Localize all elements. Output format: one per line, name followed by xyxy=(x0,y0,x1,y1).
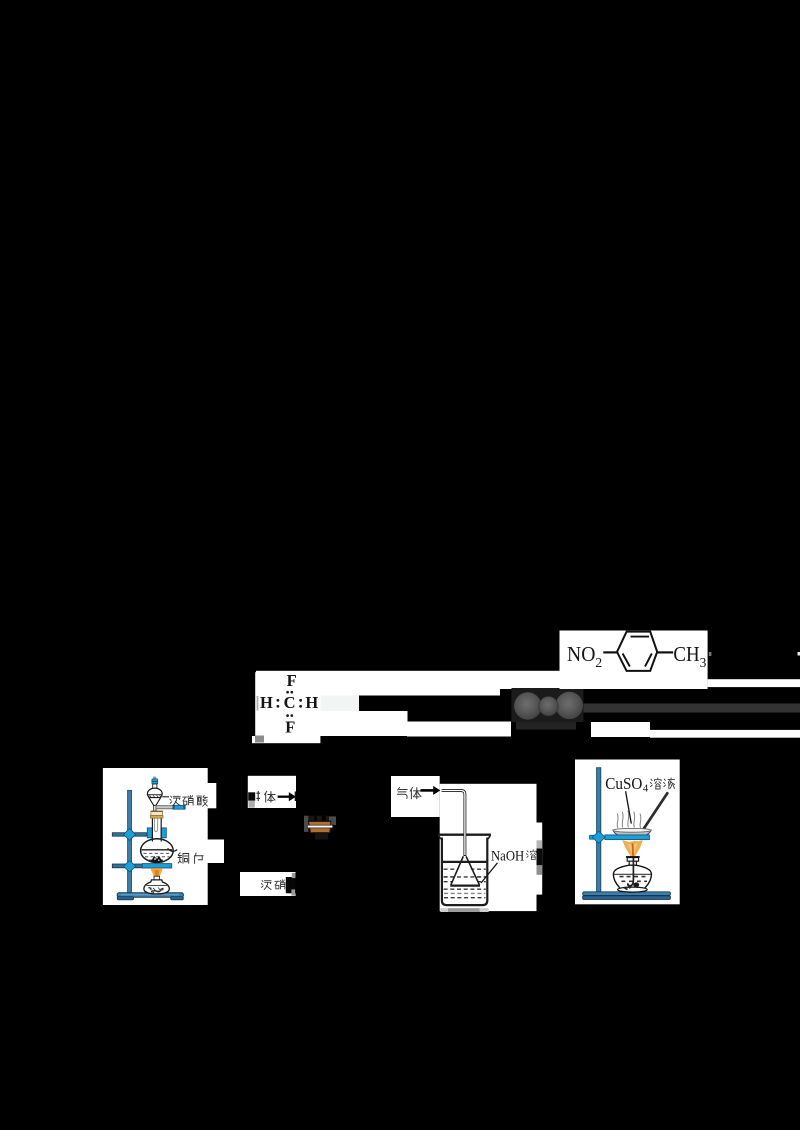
cut-off character black blob xyxy=(286,877,296,893)
rubber stopper cream part xyxy=(151,812,163,816)
lamp foot ring xyxy=(618,887,648,892)
svg-text:F: F xyxy=(285,717,295,736)
label qi (gas) xyxy=(397,787,407,798)
O sphere left xyxy=(514,692,541,719)
gray patch below blob xyxy=(537,865,543,875)
rubber stopper top line xyxy=(151,811,163,812)
apparatus2 bottom white box xyxy=(240,872,296,896)
funnel stopcock blue knob xyxy=(152,779,158,784)
stem tube inside neck xyxy=(154,819,157,832)
flame outer xyxy=(150,868,163,876)
lamp body xyxy=(613,865,651,890)
stand base left foot xyxy=(117,897,133,900)
gray cursor artifact left edge of Lewis box xyxy=(257,696,259,710)
lamp bottom shadow marks xyxy=(624,885,630,890)
apparatus1 label extension right (nitric acid) xyxy=(206,783,216,808)
wick xyxy=(628,858,634,887)
lamp hatch dark marks xyxy=(149,888,164,893)
funnel neck xyxy=(153,784,157,789)
benzene inner double bond top xyxy=(631,636,650,638)
lamp collar xyxy=(627,858,638,862)
white bottom band 4 xyxy=(650,730,800,738)
apparatus3 gas-label white box xyxy=(391,776,440,817)
ring bar xyxy=(605,835,650,840)
O sphere right xyxy=(556,692,583,719)
svg-text:CH: CH xyxy=(673,642,699,666)
C sphere center xyxy=(539,697,558,716)
svg-text:C: C xyxy=(284,693,296,712)
clamp boss upper xyxy=(124,828,136,840)
bond colon left xyxy=(277,699,280,702)
svg-text:3: 3 xyxy=(700,655,707,670)
funnel cone xyxy=(149,798,161,806)
steam squiggle 4 xyxy=(633,812,636,828)
label pian (piece) xyxy=(195,853,204,864)
gray patch bottom right xyxy=(291,889,295,895)
svg-text:4: 4 xyxy=(643,782,649,794)
bond ring to CH3 xyxy=(657,651,673,653)
lone pair dots above C xyxy=(286,691,289,694)
NaOH leader line xyxy=(481,863,498,883)
Lewis box bottom strip xyxy=(252,736,320,743)
label ti (body) xyxy=(410,787,421,798)
Lewis structure H:C:H with F above/below xyxy=(260,671,318,736)
steam squiggle 3 xyxy=(627,811,630,828)
flame inner xyxy=(154,870,159,876)
funnel base xyxy=(450,884,480,886)
gray patch left xyxy=(304,816,308,832)
dark gray band to right edge xyxy=(583,704,800,713)
crossbar upper xyxy=(112,833,147,837)
lamp collar flare xyxy=(626,856,640,858)
gray patch above blob xyxy=(537,840,543,848)
stand rod xyxy=(597,768,601,895)
clamp jaw left xyxy=(147,828,156,838)
apparatus3 right notch xyxy=(537,823,543,895)
label ye (liquid) xyxy=(664,778,675,789)
label xiao (nitric) xyxy=(275,880,285,889)
clamp boss lower xyxy=(123,861,135,872)
arrow head xyxy=(433,786,440,795)
liquid surface line xyxy=(142,849,172,851)
leader line copper xyxy=(168,848,178,851)
label nong (concentrated) xyxy=(170,796,180,806)
apparatus4 white box xyxy=(575,760,680,905)
stand rod xyxy=(128,790,132,894)
arrow head xyxy=(289,792,296,801)
gray patch right xyxy=(329,816,336,825)
flask body xyxy=(141,839,174,863)
lone pair dots below C xyxy=(286,714,289,717)
white bottom band 1 xyxy=(320,711,408,736)
ring clamp boss xyxy=(592,831,605,843)
beaker rim right flare xyxy=(487,835,490,839)
funnel bulb xyxy=(147,788,162,799)
white bottom band 3 xyxy=(591,722,650,737)
white band A (behind Lewis / between figures) xyxy=(256,671,583,689)
gray square artifact bottom-left of Lewis box xyxy=(255,736,264,743)
label tong (copper) xyxy=(178,853,189,864)
crossbar lower xyxy=(112,864,147,868)
svg-text:F: F xyxy=(287,671,297,690)
funnel stem xyxy=(154,805,156,812)
lamp inner marks xyxy=(150,888,164,892)
bond NO2 to ring xyxy=(603,651,617,653)
apparatus1 white box xyxy=(103,768,208,905)
benzene (p-nitrotoluene) white box merged with band below xyxy=(560,631,708,690)
bulb equator line xyxy=(148,794,162,796)
label xiao (nitric) xyxy=(183,795,193,805)
lamp liquid line xyxy=(614,873,652,875)
gas delivery tube xyxy=(442,791,465,857)
apparatus2 cork icon cluster xyxy=(304,816,336,840)
bulb tick marks xyxy=(150,795,161,797)
lamp neck tube xyxy=(629,861,636,868)
leader line nitric acid xyxy=(162,796,169,798)
liquid dashed rows xyxy=(444,869,486,898)
wick bottom blob xyxy=(633,882,639,887)
label nong (concentrated) xyxy=(261,880,271,889)
small gray artifact right of benzene box xyxy=(709,652,712,656)
side arm gray tube xyxy=(156,806,173,809)
stand base front face xyxy=(583,896,671,900)
arrow shaft xyxy=(278,796,290,798)
funnel right side xyxy=(466,856,479,885)
cut glyph sliver at box edge xyxy=(295,792,296,802)
tube right end cap xyxy=(332,825,334,829)
stand base top bar xyxy=(583,892,671,896)
label suan (acid) xyxy=(197,795,208,806)
flame core xyxy=(632,844,633,857)
bond colon right xyxy=(299,699,302,702)
funnel left side xyxy=(451,856,463,885)
clamp jaw right xyxy=(158,828,166,838)
beaker walls xyxy=(442,838,487,906)
flame inner light xyxy=(628,843,638,856)
label rong (solution) partial xyxy=(526,850,536,860)
gray bar under beaker xyxy=(440,908,448,912)
cork body xyxy=(308,821,331,832)
svg-text:H: H xyxy=(260,693,273,712)
gray patch top right xyxy=(292,873,296,878)
inverted funnel interior mask xyxy=(451,857,478,885)
glass tube through cork xyxy=(307,825,333,828)
flame outer xyxy=(622,840,643,856)
partial character strokes xyxy=(256,791,260,801)
gray blob under xyxy=(249,801,255,808)
stand base bar xyxy=(117,893,183,897)
side arm blue tip xyxy=(173,805,185,809)
evaporating dish bowl xyxy=(613,830,651,836)
steam squiggle 1 xyxy=(616,814,619,829)
Lewis structure white box xyxy=(255,672,320,736)
ring clamp left nub xyxy=(590,835,597,839)
glass rod xyxy=(644,793,668,828)
white bottom band 2 xyxy=(407,722,511,737)
lamp liquid line xyxy=(146,885,167,887)
liquid dashed line 1 xyxy=(144,852,171,854)
funnel gray tip xyxy=(153,777,156,780)
apparatus3 main white box xyxy=(440,784,537,911)
liquid dashed line 3 xyxy=(149,859,167,861)
liquid surface xyxy=(443,861,487,863)
support plate xyxy=(142,864,171,868)
pale band right of Lewis box xyxy=(319,696,359,713)
space-filling model shadow strip xyxy=(516,722,576,730)
dark band above cork xyxy=(308,816,328,822)
white band A middle extension xyxy=(320,688,500,696)
stand base right foot xyxy=(171,897,184,900)
svg-text:NO: NO xyxy=(567,642,595,666)
apparatus1 label extension right (copper) xyxy=(206,840,224,864)
dashed row crossing funnel xyxy=(444,876,486,878)
dark square below cork xyxy=(315,833,328,840)
beaker rim left flare xyxy=(438,835,442,839)
white sliver under benzene box xyxy=(592,660,620,663)
rubber stopper tan part xyxy=(150,815,163,818)
label ti (body) xyxy=(265,791,275,802)
copper pieces in flask xyxy=(151,856,163,862)
flask neck walls xyxy=(151,813,153,842)
lamp hatch marks row1 xyxy=(620,876,646,878)
label rong (solution) xyxy=(650,778,661,789)
white band right of benzene box xyxy=(708,679,800,687)
lamp body xyxy=(144,880,169,894)
leader line to dish xyxy=(626,791,632,823)
cut-off black blob xyxy=(248,792,255,800)
benzene inner double bond lower-right xyxy=(645,654,652,667)
apparatus2 top white box xyxy=(248,776,296,808)
benzene ring hexagon xyxy=(617,632,657,671)
arrow shaft xyxy=(421,789,434,792)
space-filling model dark backdrop xyxy=(512,688,584,722)
beaker rim xyxy=(438,834,491,836)
wick holder xyxy=(154,876,160,880)
dish top surface xyxy=(613,828,651,832)
svg-text:NaOH: NaOH xyxy=(491,849,524,865)
flask neck upper white xyxy=(153,812,161,842)
lamp hatch marks row2 xyxy=(622,880,648,882)
steam squiggle 2 xyxy=(621,812,624,828)
svg-text:CuSO: CuSO xyxy=(605,774,642,793)
liquid dashed line 2 xyxy=(145,856,170,858)
benzene inner double bond lower-left xyxy=(623,654,630,667)
steam squiggle 5 xyxy=(639,814,642,829)
stand base highlight xyxy=(121,894,179,896)
tiny white speck at right edge xyxy=(798,652,800,656)
svg-text:H: H xyxy=(305,693,318,712)
cork top dark line xyxy=(308,821,332,822)
cut-off character black blob xyxy=(537,848,543,865)
svg-text:2: 2 xyxy=(595,655,602,670)
